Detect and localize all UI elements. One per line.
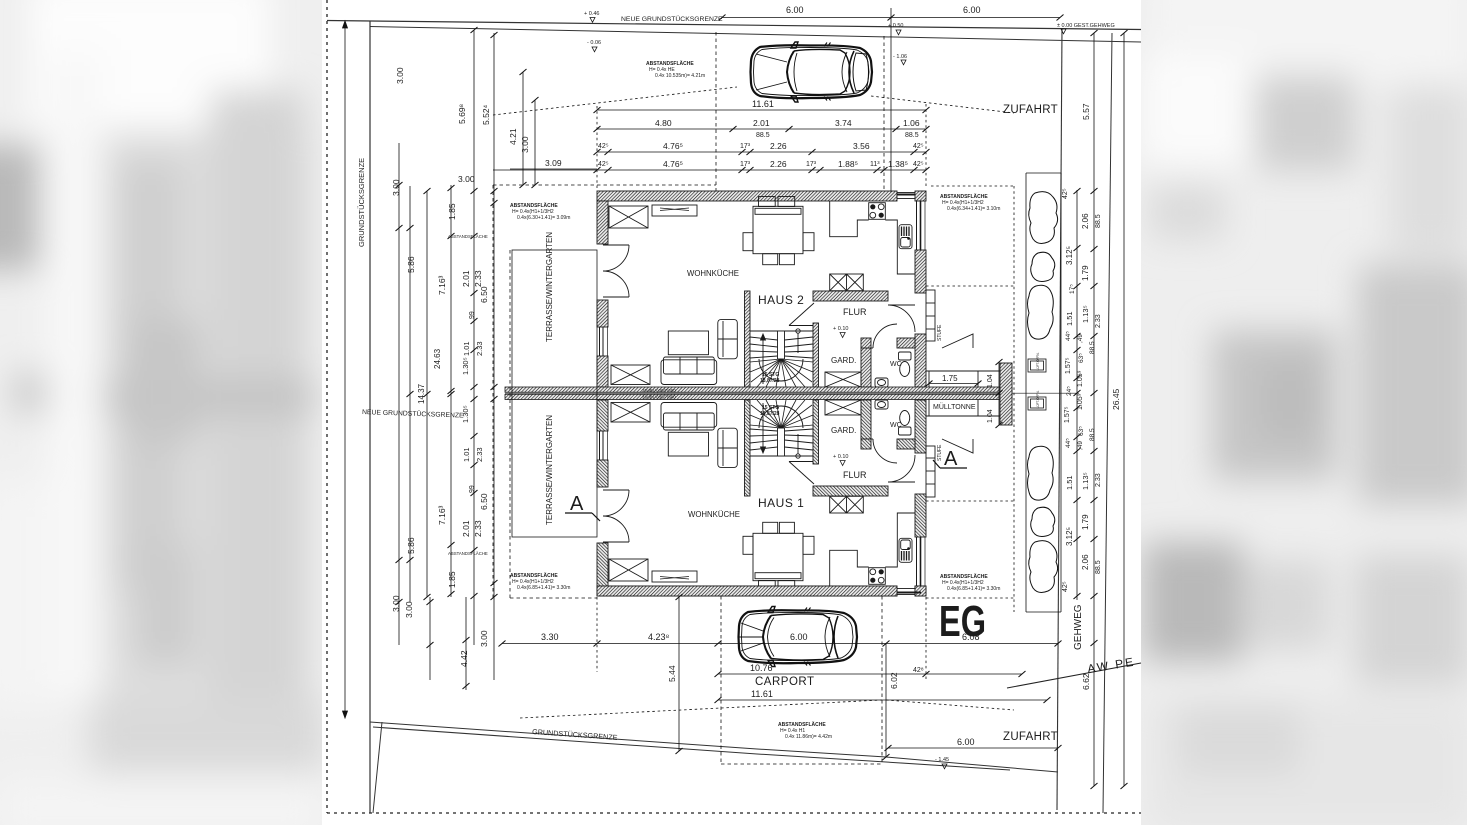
svg-text:11.61: 11.61 (751, 689, 773, 699)
left wall segment 3 (597, 356, 608, 387)
dim 3.09 line (510, 168, 597, 170)
svg-text:HAUS 2: HAUS 2 (758, 293, 804, 307)
svg-text:88.5: 88.5 (1095, 560, 1102, 574)
solid vertical x891 (890, 8, 892, 192)
entry door arc (888, 305, 915, 332)
dashed horizontal y598 left (510, 597, 597, 599)
chain x523 (4.21) (522, 72, 524, 185)
svg-text:2.26: 2.26 (770, 159, 787, 169)
svg-text:1.05⁹: 1.05⁹ (1077, 370, 1084, 387)
car bottom (hatchback, front left) (739, 607, 858, 667)
svg-text:WOHNKÜCHE: WOHNKÜCHE (687, 269, 739, 278)
dashed vertical x884 (883, 36, 885, 191)
svg-text:+ 0.46: + 0.46 (584, 11, 599, 17)
chairs (743, 233, 753, 251)
french door to terrace: leaf lines + arcs (603, 244, 629, 246)
carport dashed rect (720, 596, 722, 764)
left wall segment 1 (597, 201, 608, 244)
svg-text:1.01: 1.01 (462, 447, 471, 462)
chain x494 (493, 33, 495, 680)
dotted vertical x1014 (1013, 186, 1015, 612)
living X-box bottom-left (611, 365, 650, 385)
party wall double band (505, 387, 1079, 400)
house interior texts (545, 232, 1003, 525)
right wall segment low (915, 334, 926, 387)
svg-text:0.4x 11.86m)= 4.42m: 0.4x 11.86m)= 4.42m (785, 734, 832, 740)
outer top wall (597, 191, 897, 201)
stair headroom lines (789, 325, 813, 327)
svg-text:GARD.: GARD. (831, 356, 856, 365)
svg-text:0.4x(6.85+1.41)= 3.30m: 0.4x(6.85+1.41)= 3.30m (947, 586, 1000, 592)
svg-text:ABSTANDSFLÄCHE: ABSTANDSFLÄCHE (646, 60, 694, 67)
small slanted line bottom-left (373, 722, 382, 813)
lueftung box 1 (1028, 359, 1046, 372)
svg-text:3.00: 3.00 (479, 630, 489, 647)
Gehweg east line (1103, 33, 1112, 813)
svg-text:42⁸: 42⁸ (913, 667, 924, 674)
svg-text:2.33: 2.33 (1095, 314, 1102, 328)
svg-text:4.42: 4.42 (459, 650, 469, 667)
svg-text:44⁵: 44⁵ (1065, 331, 1072, 341)
chain x427 (426, 191, 428, 597)
svg-text:6.50: 6.50 (479, 286, 489, 303)
svg-text:ABSTANDSFLÄCHE: ABSTANDSFLÄCHE (510, 202, 558, 209)
dining table (753, 206, 803, 253)
svg-text:2.01: 2.01 (461, 270, 471, 287)
svg-text:WOHNKÜCHE: WOHNKÜCHE (688, 510, 740, 519)
svg-text:5.52⁴: 5.52⁴ (481, 104, 491, 125)
svg-text:42⁵: 42⁵ (913, 161, 924, 168)
svg-text:1.13⁵: 1.13⁵ (1081, 472, 1090, 490)
svg-text:3.30: 3.30 (541, 632, 559, 642)
bush blob 5 (1031, 507, 1055, 536)
svg-text:3.74: 3.74 (835, 118, 852, 128)
dim row y643 (502, 643, 1058, 645)
dotted horizontals right (931, 185, 1014, 187)
section marker A left (565, 493, 600, 521)
right wall window strip (916, 201, 918, 250)
kitchen cabinet X-boxes (830, 274, 864, 291)
dim row A 11.61 (597, 109, 926, 111)
svg-text:- 1.06: - 1.06 (893, 54, 907, 60)
wc top wall (861, 338, 871, 348)
right dim chain x1124 (26.45) (1123, 33, 1125, 786)
svg-text:HAUS 1: HAUS 1 (758, 496, 804, 510)
car top (sedan, front left) (751, 42, 873, 102)
svg-text:6.00: 6.00 (963, 5, 981, 15)
svg-text:0.4x 10.535m)= 4.21m: 0.4x 10.535m)= 4.21m (655, 73, 705, 79)
left wall segment 2 (597, 300, 608, 327)
chain x535 (3.00) (534, 100, 536, 185)
bush blob 6 (1029, 541, 1058, 593)
svg-text:3.09: 3.09 (545, 158, 562, 168)
svg-text:3.00: 3.00 (391, 179, 401, 196)
muell enclosure top line (926, 370, 1000, 372)
wc left wall (861, 348, 871, 387)
svg-text:- 0.06: - 0.06 (587, 40, 601, 46)
dashed horizontal y185 (493, 184, 716, 186)
svg-text:A: A (570, 493, 584, 515)
svg-text:1.51: 1.51 (1065, 311, 1074, 326)
svg-text:88.5: 88.5 (1095, 214, 1102, 228)
stair first step line (750, 330, 813, 332)
section marker A right (933, 448, 967, 470)
svg-text:ABSTANDSFLÄCHE: ABSTANDSFLÄCHE (940, 193, 988, 200)
chain x451 (450, 185, 452, 597)
svg-text:ZUFAHRT: ZUFAHRT (1003, 104, 1058, 116)
svg-text:7.16³: 7.16³ (437, 275, 447, 295)
svg-text:1.75: 1.75 (942, 374, 958, 383)
right dim chain x1077 (1076, 190, 1078, 600)
chain 24.63 (344, 21, 346, 718)
svg-text:6.00: 6.00 (790, 632, 808, 642)
svg-text:GEHWEG: GEHWEG (1073, 604, 1084, 650)
svg-text:44⁵: 44⁵ (1065, 438, 1072, 448)
svg-text:LÜFT.ÖFFN.: LÜFT.ÖFFN. (1036, 352, 1040, 370)
site boundary: east side (Zufahrt edge) (1057, 28, 1062, 810)
dashed drawing frame bottom (327, 812, 1141, 814)
dotted bottom diagonal (520, 700, 882, 718)
dotted house corner verticals (596, 106, 598, 191)
svg-text:A: A (944, 448, 958, 470)
dashed vertical x493 (492, 185, 494, 600)
abstandsflaeche dotted diagonal right (871, 96, 1014, 113)
site boundary: bottom diagonal double line (370, 722, 1058, 772)
hatched pillar at east end of party wall (1000, 363, 1012, 425)
svg-text:STUFE: STUFE (937, 324, 943, 341)
svg-text:NEUE GRUNDSTÜCKSGRENZE: NEUE GRUNDSTÜCKSGRENZE (621, 15, 723, 23)
bush blob 3 (1028, 285, 1054, 339)
svg-text:0.4x(6.85+1.41)= 3.30m: 0.4x(6.85+1.41)= 3.30m (517, 585, 570, 591)
wc sink (875, 378, 888, 387)
svg-text:ZUFAHRT: ZUFAHRT (1003, 731, 1058, 743)
svg-text:1.85: 1.85 (447, 571, 457, 588)
svg-text:ABSTANDSFLÄCHE: ABSTANDSFLÄCHE (448, 234, 488, 239)
dashed vertical x510 (509, 250, 511, 598)
svg-text:WC: WC (890, 422, 902, 429)
svg-text:1.04: 1.04 (987, 409, 994, 423)
stair handrail knob (796, 329, 800, 333)
coffee table (668, 331, 708, 355)
kitchen sink (899, 225, 912, 249)
muell enclosure side walls (928, 371, 930, 393)
svg-text:1.79: 1.79 (1081, 265, 1090, 281)
svg-text:1.57⁵: 1.57⁵ (1064, 406, 1071, 423)
svg-text:42⁵: 42⁵ (598, 161, 609, 168)
kitchen stove (869, 203, 886, 220)
svg-text:+ 0.10: + 0.10 (833, 454, 848, 460)
stair up arrow (762, 338, 764, 384)
svg-text:88.5: 88.5 (1089, 428, 1096, 441)
stair arc (759, 359, 803, 381)
HAUS 1 = mirror of unit geometry (597, 394, 1000, 596)
chain x474 (473, 30, 475, 645)
svg-text:99: 99 (469, 485, 476, 493)
svg-text:+ 0.50: + 0.50 (888, 23, 903, 29)
dim row 6.00 bottom (888, 747, 1058, 749)
svg-text:7.16³: 7.16³ (437, 505, 447, 525)
svg-text:5.69⁸: 5.69⁸ (457, 103, 467, 124)
stair winder treads right (785, 337, 814, 340)
svg-text:1.06: 1.06 (903, 118, 920, 128)
svg-text:24⁵: 24⁵ (1066, 386, 1073, 396)
svg-text:2.06: 2.06 (1081, 213, 1090, 229)
svg-text:2.01: 2.01 (461, 520, 471, 537)
svg-text:4.21: 4.21 (508, 128, 518, 145)
dotted house corner verticals bottom (596, 597, 598, 672)
left wall window (599, 327, 601, 356)
site boundary: second top line (370, 27, 1141, 43)
dim row 11.61 (718, 699, 1047, 701)
svg-text:3.00: 3.00 (520, 136, 530, 153)
svg-text:3.00: 3.00 (458, 174, 475, 184)
svg-text:42⁵: 42⁵ (1062, 581, 1069, 592)
right dim chain x1094 (1093, 33, 1095, 786)
svg-text:63⁵: 63⁵ (1078, 353, 1085, 363)
dim row B (597, 128, 926, 130)
svg-text:11.61: 11.61 (752, 99, 774, 109)
AW PE line (1007, 663, 1141, 688)
svg-text:1.38⁵: 1.38⁵ (888, 159, 908, 169)
svg-text:TERRASSE/WINTERGARTEN: TERRASSE/WINTERGARTEN (545, 232, 554, 342)
svg-text:4.23⁸: 4.23⁸ (648, 632, 670, 642)
svg-text:STUFE: STUFE (937, 444, 943, 461)
right wall segment mid (915, 250, 926, 293)
svg-text:2.33: 2.33 (473, 520, 483, 537)
svg-text:6.02: 6.02 (889, 672, 899, 689)
chain x410 (409, 186, 411, 602)
svg-text:GARD.: GARD. (831, 426, 856, 435)
svg-text:0.4x(6.30+1.41)= 3.09m: 0.4x(6.30+1.41)= 3.09m (517, 215, 570, 221)
svg-text:17³: 17³ (806, 161, 817, 168)
svg-text:2.33: 2.33 (475, 447, 484, 462)
bush blob 2 (1031, 252, 1055, 281)
svg-text:± 0.00 GEST.GEHWEG: ± 0.00 GEST.GEHWEG (1057, 23, 1115, 29)
svg-text:ABSTANDSFLÄCHE: ABSTANDSFLÄCHE (448, 551, 488, 556)
abstandsflaeche dotted diagonal left (493, 87, 737, 115)
svg-text:GRUNDSTÜCKSGRENZE: GRUNDSTÜCKSGRENZE (357, 158, 366, 247)
chain x399 (398, 143, 400, 645)
svg-text:17³: 17³ (740, 143, 751, 150)
chain x886 (6.02) (885, 643, 887, 757)
svg-text:6.00: 6.00 (786, 5, 804, 15)
svg-text:2.33: 2.33 (475, 341, 484, 356)
bottom-left rotated labels (404, 601, 489, 667)
svg-text:2.26: 2.26 (770, 141, 787, 151)
rotated labels right (1062, 103, 1121, 690)
muell ramp triangle (942, 334, 973, 348)
svg-text:0.4x(6.34+1.41)= 3.10m: 0.4x(6.34+1.41)= 3.10m (947, 206, 1000, 212)
svg-text:,49: ,49 (1077, 334, 1084, 343)
svg-text:4.80: 4.80 (655, 118, 672, 128)
stair right wall (813, 323, 819, 387)
svg-text:6.08: 6.08 (962, 632, 980, 642)
living X-box top-left (609, 206, 648, 228)
svg-text:99: 99 (469, 311, 476, 319)
stair radial fan (750, 359, 813, 387)
planting strip borders (1025, 173, 1027, 612)
svg-text:3.00: 3.00 (395, 67, 405, 84)
bottom wall re-hatch (correct direction) (597, 586, 897, 596)
svg-text:ABSTANDSFLÄCHE: ABSTANDSFLÄCHE (510, 572, 558, 579)
svg-text:1.85: 1.85 (447, 203, 457, 220)
lueftung box 2 (1028, 397, 1046, 410)
rotated labels (391, 67, 530, 612)
svg-text:63⁵: 63⁵ (1078, 426, 1085, 436)
svg-text:2.06: 2.06 (1081, 554, 1090, 570)
svg-text:1.88⁵: 1.88⁵ (838, 159, 858, 169)
svg-text:88.5: 88.5 (905, 132, 919, 139)
svg-text:TERRASSE/WINTERGARTEN: TERRASSE/WINTERGARTEN (545, 415, 554, 525)
svg-text:1.57⁵: 1.57⁵ (1065, 357, 1072, 374)
svg-text:24.63: 24.63 (433, 348, 442, 369)
svg-text:88.5: 88.5 (1089, 341, 1096, 354)
svg-text:3.12⁵: 3.12⁵ (1065, 527, 1074, 546)
wc door arc (873, 324, 897, 348)
svg-text:6.50: 6.50 (479, 493, 489, 510)
sofa (661, 360, 717, 385)
svg-text:2.33: 2.33 (473, 270, 483, 287)
dashed drawing frame left (326, 0, 328, 813)
top-right corner wall piece (915, 191, 926, 201)
svg-text:26.45: 26.45 (1111, 388, 1121, 410)
svg-text:1.79: 1.79 (1081, 514, 1090, 530)
blurred right margin (1141, 0, 1467, 825)
svg-text:WC: WC (890, 361, 902, 368)
wc toilet (899, 352, 912, 360)
armchair (718, 320, 738, 359)
svg-text:LÜFT.ÖFFN.: LÜFT.ÖFFN. (1036, 390, 1040, 408)
dim row 10.76 (718, 673, 1022, 675)
svg-text:5.86: 5.86 (406, 537, 416, 554)
svg-text:1.01: 1.01 (462, 341, 471, 356)
top dim row 6.00 / 6.00 (722, 17, 1060, 19)
svg-text:17⁵: 17⁵ (1069, 284, 1076, 294)
site boundary: west vertical line (369, 21, 371, 813)
kitchen counter outline (830, 201, 916, 274)
svg-text:3.12⁵: 3.12⁵ (1065, 246, 1074, 265)
svg-text:MÜLLTONNE: MÜLLTONNE (933, 403, 976, 411)
site boundary: top property line (327, 21, 1141, 30)
svg-text:1.30⁵: 1.30⁵ (461, 357, 470, 375)
svg-text:1.51: 1.51 (1065, 475, 1074, 490)
svg-text:ABSTANDSFLÄCHE: ABSTANDSFLÄCHE (778, 721, 826, 728)
svg-text:10.76: 10.76 (750, 663, 773, 673)
svg-text:42⁵: 42⁵ (913, 143, 924, 150)
bush blob 1 (1029, 192, 1058, 244)
svg-text:4.76⁵: 4.76⁵ (663, 159, 683, 169)
svg-text:CARPORT: CARPORT (755, 676, 815, 688)
svg-text:18,87/28: 18,87/28 (760, 411, 780, 417)
svg-text:11³: 11³ (870, 161, 880, 168)
svg-text:1.05⁹: 1.05⁹ (1077, 393, 1084, 410)
svg-text:42⁵: 42⁵ (1062, 188, 1069, 199)
svg-text:3.00: 3.00 (391, 595, 401, 612)
svg-text:42⁵: 42⁵ (598, 143, 609, 150)
svg-text:ABSTANDSFLÄCHE: ABSTANDSFLÄCHE (940, 573, 988, 580)
svg-text:,49: ,49 (1077, 441, 1084, 450)
svg-text:6.00: 6.00 (957, 737, 975, 747)
dim row D (493, 169, 926, 171)
gard wardrobe X-box (825, 372, 861, 387)
svg-text:3.00: 3.00 (404, 601, 414, 618)
stair spindle (778, 331, 785, 359)
flur top wall (813, 291, 888, 301)
svg-text:17³: 17³ (740, 161, 751, 168)
svg-text:5.44: 5.44 (667, 665, 677, 682)
svg-text:+ 0.10: + 0.10 (833, 326, 848, 332)
outside entry steps (926, 290, 935, 341)
bottom left chains (429, 597, 431, 680)
chain x679 (5.44) (678, 597, 680, 751)
dim row C (597, 151, 926, 153)
svg-text:4.76⁵: 4.76⁵ (663, 141, 683, 151)
bush blob 4 (1028, 446, 1054, 500)
svg-text:1.04: 1.04 (987, 374, 994, 388)
blurred left margin (0, 0, 325, 825)
stair winder treads left (750, 337, 778, 340)
svg-text:14.37: 14.37 (417, 383, 426, 404)
svg-text:5.57: 5.57 (1081, 103, 1091, 120)
svg-text:FLUR: FLUR (843, 470, 867, 480)
svg-text:3SdB(A)30/7/600: 3SdB(A)30/7/600 (642, 388, 676, 393)
svg-text:FLUR: FLUR (843, 307, 867, 317)
svg-text:2.01: 2.01 (753, 118, 770, 128)
svg-text:3.56: 3.56 (853, 141, 870, 151)
svg-text:2.33: 2.33 (1095, 473, 1102, 487)
svg-text:3SdB(A)30/7/600: 3SdB(A)30/7/600 (642, 395, 676, 400)
dashed vertical x716 (715, 32, 717, 191)
top wall window strip (897, 193, 921, 199)
svg-text:88.5: 88.5 (756, 132, 770, 139)
svg-text:5.86: 5.86 (406, 256, 416, 273)
svg-text:1.13⁵: 1.13⁵ (1081, 305, 1090, 323)
svg-text:18,87/28: 18,87/28 (760, 378, 780, 384)
dim 1.04/1.04 vertical (998, 362, 1000, 425)
stair left wall (745, 291, 751, 387)
terrace rectangle (512, 250, 597, 537)
svg-text:- 1.45: - 1.45 (935, 757, 949, 763)
sideboard (652, 205, 697, 216)
